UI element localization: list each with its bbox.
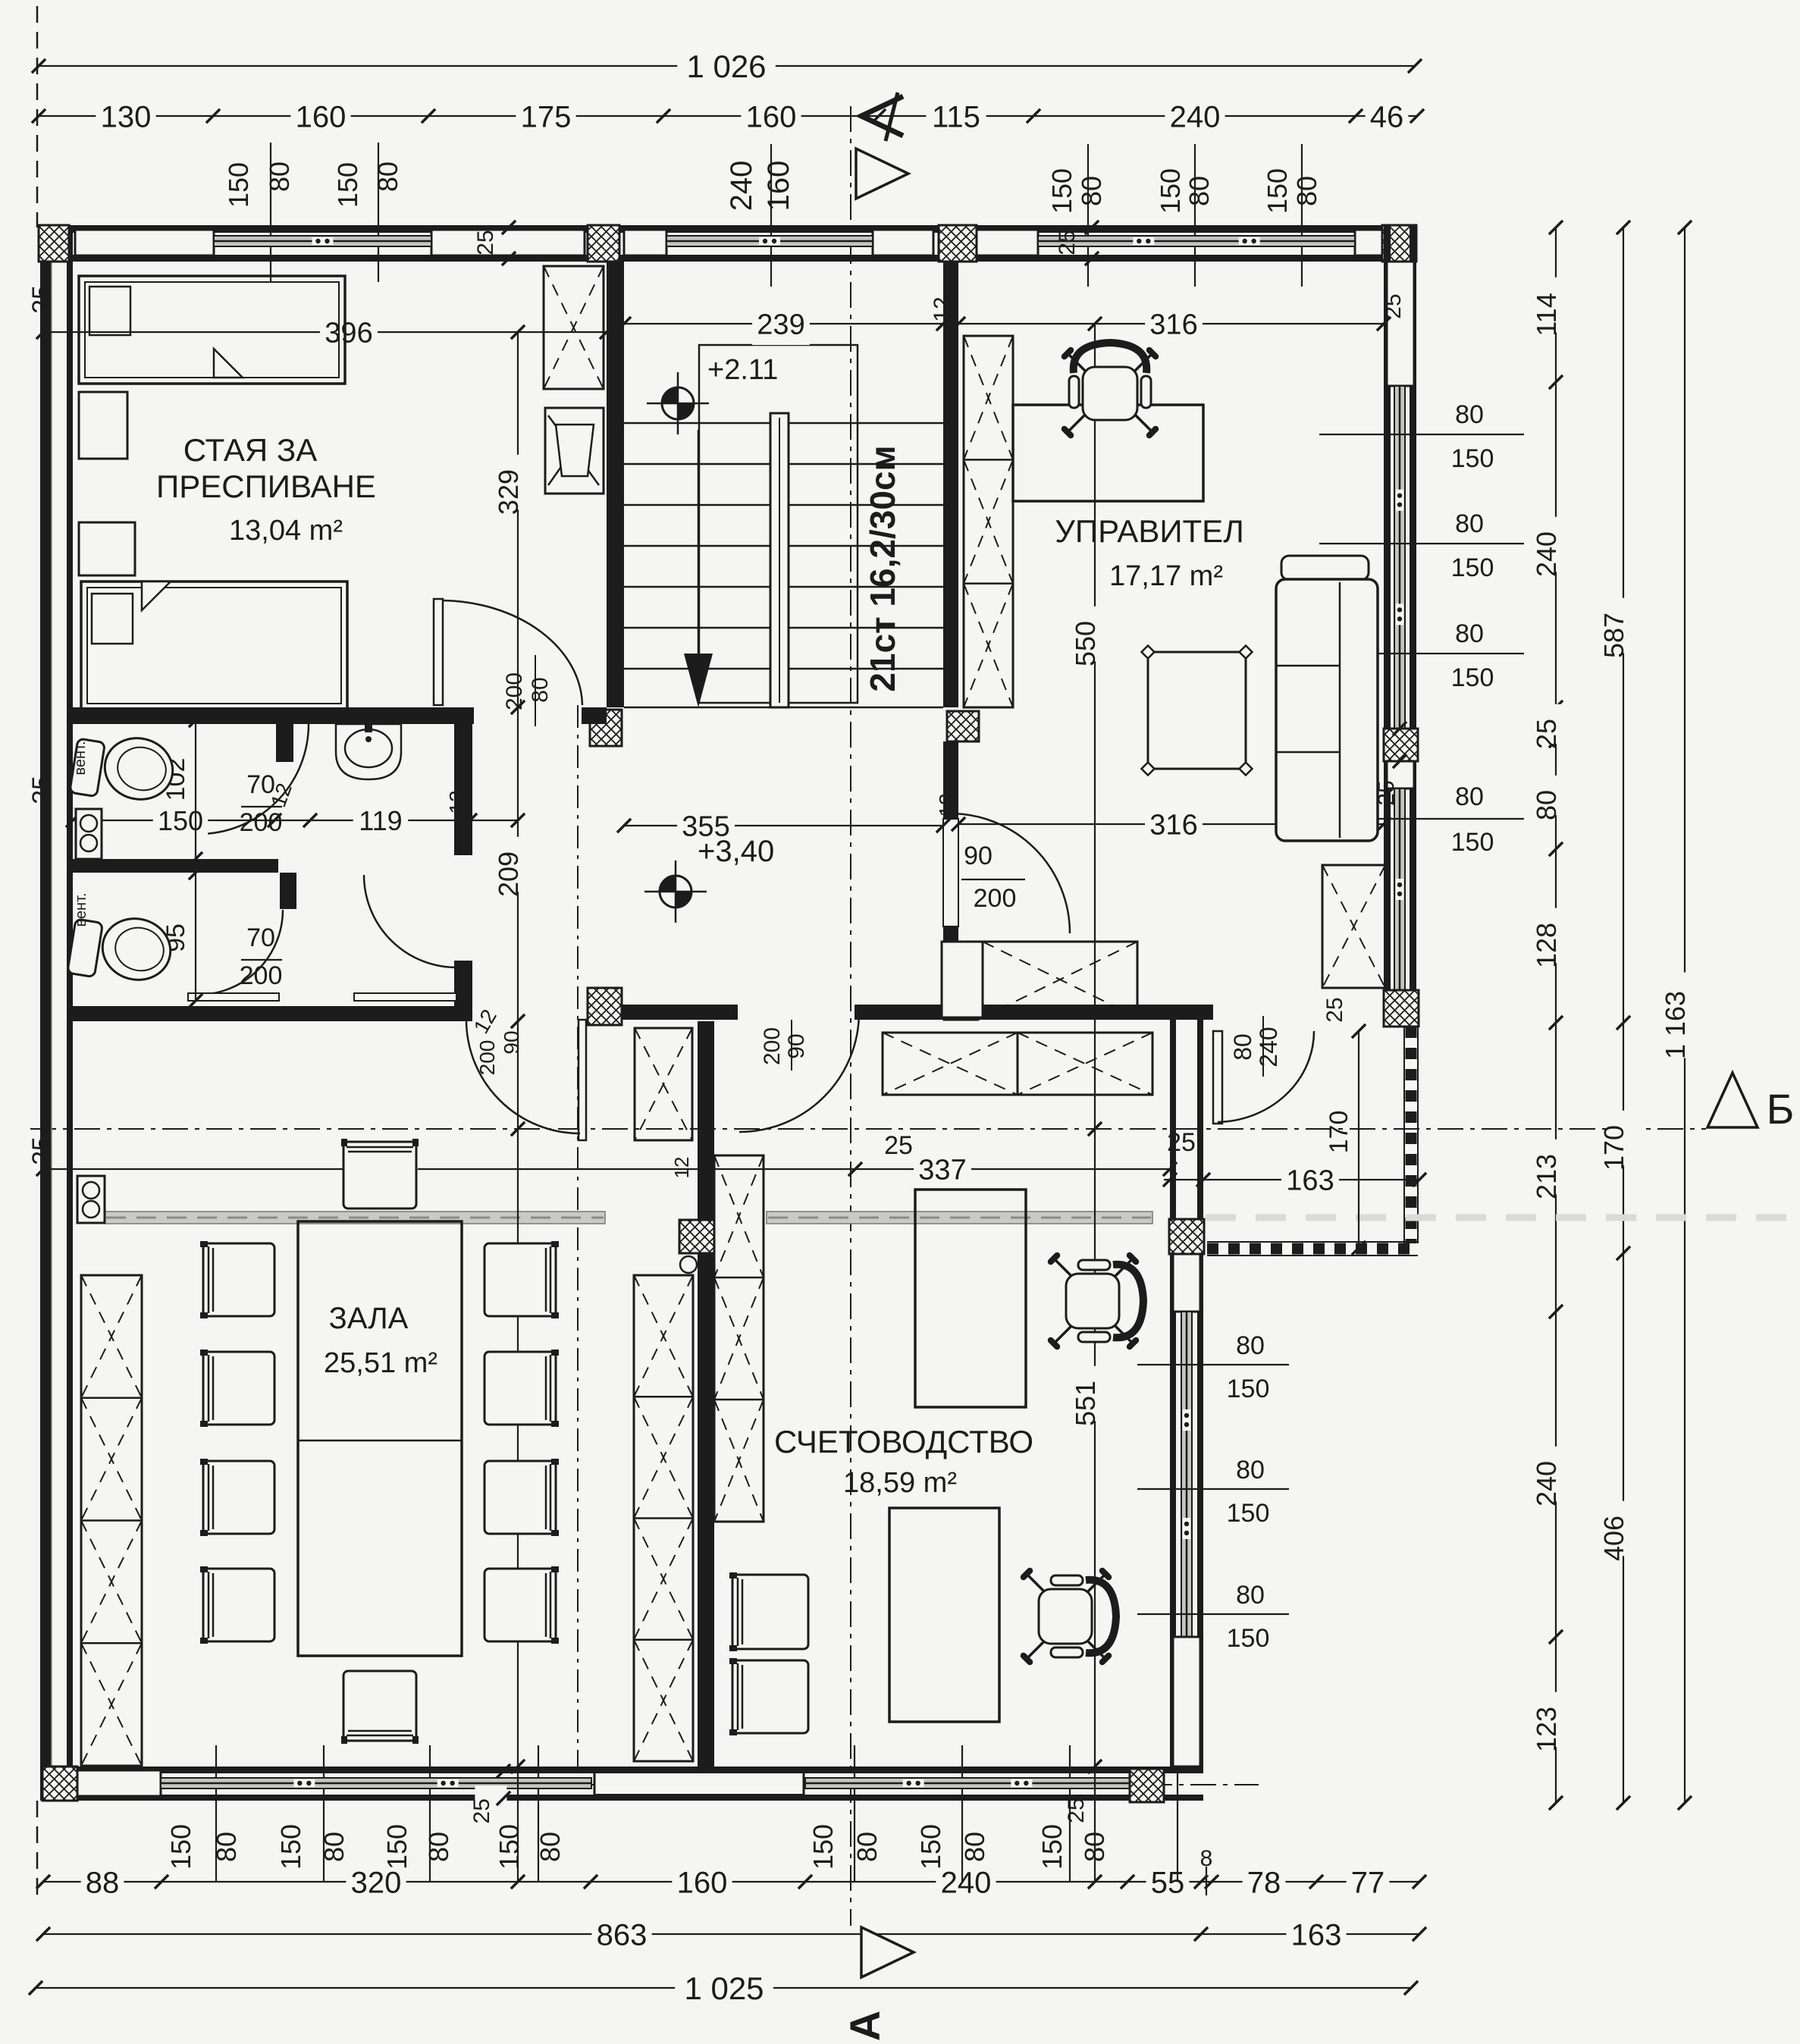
node accounting desk 1	[915, 1190, 1026, 1407]
svg-text:150: 150	[165, 1824, 196, 1870]
svg-text:25: 25	[27, 1136, 56, 1165]
svg-text:80: 80	[1455, 619, 1484, 648]
wall manager west segment lower	[943, 926, 958, 998]
svg-text:80: 80	[535, 1832, 566, 1862]
svg-text:240: 240	[1531, 1461, 1562, 1506]
svg-text:150: 150	[1227, 1499, 1270, 1528]
svg-text:70: 70	[246, 770, 275, 799]
node axis A vertical dash-dot line	[850, 106, 851, 1926]
svg-text:170: 170	[1598, 1125, 1629, 1171]
node accounting chair 1	[1046, 1251, 1143, 1351]
node accounting visitor chairs	[732, 1575, 808, 1649]
svg-text:90: 90	[964, 842, 993, 870]
svg-text:80: 80	[959, 1832, 990, 1862]
node dim 239 stairs	[624, 323, 943, 324]
svg-text:550: 550	[1070, 621, 1101, 666]
svg-text:Б: Б	[1767, 1085, 1795, 1133]
svg-text:80: 80	[528, 677, 553, 702]
window right manager glazing lower	[1394, 788, 1405, 990]
wall pier hatch top corner right	[1382, 225, 1416, 262]
svg-text:150: 150	[223, 162, 254, 208]
door bath arc 80/200	[364, 875, 456, 967]
node dim vertical 329/209/551 line	[517, 332, 519, 1882]
svg-text:316: 316	[1149, 810, 1197, 842]
wire left boundary dashed line bottom	[36, 1801, 39, 1895]
node manager desk	[1013, 405, 1203, 501]
wall pier hatch stairs east foot	[947, 711, 979, 741]
svg-text:240: 240	[1531, 531, 1562, 577]
node section symbol B triangle	[1707, 1073, 1758, 1127]
svg-text:1 163: 1 163	[1660, 991, 1691, 1059]
svg-text:25: 25	[473, 230, 498, 255]
wall bottom band	[40, 1767, 1203, 1773]
svg-text:587: 587	[1598, 613, 1629, 658]
svg-text:80: 80	[1076, 176, 1107, 206]
window bottom hall glazing	[161, 1778, 591, 1788]
svg-text:200: 200	[240, 808, 283, 837]
node stove panel zala	[77, 1176, 105, 1223]
wall accounting north partition dotted	[767, 1212, 1152, 1224]
node manager rug	[1148, 652, 1246, 769]
svg-text:25,51 m²: 25,51 m²	[324, 1347, 437, 1379]
wall wc divider	[73, 859, 278, 873]
wall wc east stub upper	[276, 720, 293, 762]
wall pier hatch top at stairs	[588, 225, 619, 262]
node zala chairs left	[203, 1243, 274, 1316]
door wc lower arc 70/200	[198, 910, 283, 995]
node dim 355 hall	[624, 825, 943, 826]
svg-text:25: 25	[1167, 1128, 1196, 1157]
svg-text:55: 55	[1151, 1866, 1185, 1899]
node wardrobe beside stairs	[544, 266, 604, 389]
svg-text:25: 25	[1381, 293, 1406, 318]
node dim row 88/320/160/240/55/8/78/77	[43, 1881, 1419, 1883]
svg-text:80: 80	[211, 1832, 242, 1862]
wall terrace parapet horizontal	[1207, 1241, 1418, 1243]
door zala leaf and arc 90/200	[579, 1020, 586, 1140]
wall pier hatch zala divider	[679, 1220, 714, 1253]
svg-text:337: 337	[918, 1155, 966, 1187]
svg-text:209: 209	[493, 851, 524, 897]
svg-text:175: 175	[521, 100, 572, 133]
node nightstand 1	[79, 392, 127, 459]
wall zala north partition dotted	[105, 1212, 605, 1224]
window top bedroom frame boxes	[75, 230, 214, 255]
svg-text:150: 150	[1155, 168, 1186, 214]
wall corridor south left segment	[588, 1005, 738, 1020]
node window dim labels group manager room	[1087, 144, 1089, 287]
svg-text:90: 90	[500, 1030, 523, 1054]
svg-text:80: 80	[1229, 1033, 1256, 1061]
node dim 316 manager lower	[958, 823, 1384, 825]
svg-text:80: 80	[1236, 1331, 1265, 1360]
svg-text:150: 150	[915, 1824, 946, 1870]
node zala chairs right	[484, 1243, 556, 1316]
svg-text:150: 150	[1451, 663, 1494, 692]
svg-text:12: 12	[930, 296, 955, 321]
node dim 396 bedroom	[43, 331, 607, 333]
node dim column right middle 587/170/406	[1623, 227, 1624, 1803]
wall stairs east	[943, 262, 958, 707]
svg-text:150: 150	[1046, 168, 1077, 214]
svg-text:160: 160	[677, 1866, 728, 1899]
svg-text:128: 128	[1531, 923, 1562, 968]
wall pier hatch right mid	[1384, 729, 1418, 761]
svg-text:46: 46	[1370, 100, 1404, 133]
node dim 102 wc upper	[195, 720, 196, 859]
window top manager frame boxes	[976, 230, 1038, 255]
node cabinet corridor upper	[942, 942, 983, 1017]
node window dim labels bottom hall	[215, 1745, 217, 1882]
svg-text:150: 150	[332, 162, 363, 208]
svg-text:А: А	[841, 2011, 889, 2041]
door manager arc 90/200	[949, 812, 951, 819]
svg-text:150: 150	[381, 1824, 412, 1870]
wall pier hatch right at corridor	[1384, 990, 1419, 1027]
svg-text:12: 12	[445, 790, 469, 814]
svg-text:240: 240	[725, 161, 758, 212]
svg-text:150: 150	[807, 1824, 839, 1870]
svg-text:200: 200	[974, 884, 1017, 913]
svg-text:163: 163	[1291, 1918, 1342, 1952]
node dim row 1026	[39, 65, 1415, 67]
svg-text:78: 78	[1247, 1866, 1281, 1899]
svg-text:316: 316	[1149, 309, 1197, 341]
dim lines 80/150 right manager wall	[1319, 434, 1524, 435]
svg-text:+2.11: +2.11	[707, 354, 778, 386]
node survey marker upper	[662, 387, 694, 419]
svg-text:160: 160	[746, 100, 797, 133]
svg-text:80: 80	[264, 161, 295, 192]
svg-text:90: 90	[784, 1033, 809, 1058]
svg-text:150: 150	[1451, 553, 1494, 582]
wall sink east stub lower	[454, 961, 472, 1021]
node axis B horizontal dash-dot line	[30, 1128, 1706, 1130]
svg-text:130: 130	[101, 100, 152, 133]
svg-text:200: 200	[760, 1027, 785, 1065]
svg-text:12: 12	[935, 793, 958, 817]
node dim column right outer 1163	[1684, 227, 1686, 1803]
svg-text:329: 329	[493, 469, 524, 515]
door sill bath south left	[188, 993, 279, 1001]
node dim 163 terrace	[1164, 1179, 1419, 1180]
svg-text:80: 80	[1455, 509, 1484, 538]
wall wc east stub lower	[280, 873, 296, 909]
svg-text:25: 25	[27, 776, 56, 804]
svg-text:406: 406	[1598, 1516, 1629, 1561]
svg-text:150: 150	[1262, 168, 1293, 214]
window top manager glazing	[1038, 236, 1355, 246]
node manager office chair	[1060, 343, 1160, 440]
node cabinet corridor lower	[883, 1033, 1018, 1095]
node axis mid vertical dash-dot line	[577, 705, 579, 1767]
node vent circle	[680, 1256, 697, 1273]
door sill bath south right	[354, 993, 456, 1001]
node manager window cabinet	[1322, 865, 1385, 988]
node window dim labels group bedroom	[270, 143, 271, 282]
door wc upper arc 70/200	[199, 724, 309, 834]
svg-text:вент.: вент.	[72, 741, 89, 775]
node wardrobe manager west	[964, 336, 1013, 707]
svg-text:80: 80	[1531, 790, 1562, 820]
svg-text:119: 119	[359, 805, 402, 836]
node washbasin	[336, 724, 401, 779]
svg-text:80: 80	[1455, 782, 1484, 811]
svg-text:551: 551	[1070, 1381, 1101, 1426]
wall sink east	[454, 720, 472, 855]
window bottom accounting glazing	[805, 1778, 1130, 1788]
dim lines 80/150 right accounting wall	[1137, 1364, 1289, 1365]
door bedroom arc 80/200	[434, 599, 443, 705]
node dim vertical 550/551 line	[1094, 324, 1096, 1882]
svg-text:80: 80	[1236, 1581, 1265, 1610]
svg-text:240: 240	[941, 1866, 992, 1899]
wall stairs west	[607, 262, 624, 707]
svg-text:80: 80	[318, 1832, 350, 1862]
wall bottom solid mid piece	[594, 1768, 804, 1798]
svg-text:25: 25	[1055, 230, 1080, 255]
svg-text:239: 239	[757, 309, 804, 341]
node nightstand 2	[79, 522, 135, 575]
node zala chair top	[343, 1142, 416, 1209]
node stair stringer	[770, 413, 789, 707]
node boiler panel wc	[76, 809, 102, 859]
svg-text:200: 200	[502, 672, 527, 710]
svg-text:СЧЕТОВОДСТВО: СЧЕТОВОДСТВО	[774, 1424, 1033, 1459]
svg-text:160: 160	[296, 100, 347, 133]
node section symbol A bottom triangle	[861, 1927, 914, 1977]
wall pier hatch corridor east	[944, 987, 978, 1020]
svg-text:25: 25	[469, 1798, 494, 1823]
node stair landing/void outline	[699, 345, 858, 703]
wall right lower band	[1170, 1020, 1176, 1767]
svg-text:115: 115	[932, 100, 980, 133]
svg-text:1 025: 1 025	[684, 1970, 764, 2006]
svg-text:150: 150	[1036, 1824, 1068, 1870]
node window dim labels bottom accounting	[854, 1745, 855, 1882]
svg-text:150: 150	[275, 1824, 306, 1870]
svg-text:80: 80	[372, 161, 403, 192]
svg-text:80: 80	[1455, 400, 1484, 429]
wire left boundary dashed line top	[36, 6, 39, 227]
node dim row 1025	[36, 1987, 1411, 1989]
wall right upper band	[1384, 225, 1391, 1027]
wall terrace parapet vertical	[1403, 1027, 1405, 1243]
svg-text:СТАЯ ЗА: СТАЯ ЗА	[183, 432, 318, 468]
node zala chair bottom	[343, 1671, 416, 1741]
svg-text:213: 213	[1531, 1154, 1562, 1199]
svg-text:240: 240	[1170, 100, 1221, 133]
node bed 1	[79, 276, 345, 384]
svg-text:150: 150	[1451, 828, 1494, 857]
svg-text:25: 25	[884, 1131, 913, 1160]
svg-text:21ст 16,2/30см: 21ст 16,2/30см	[863, 445, 902, 691]
svg-text:123: 123	[1531, 1707, 1562, 1752]
wall pier hatch top corner left	[39, 225, 69, 262]
wall pier hatch bottom right	[1130, 1769, 1164, 1802]
wall pier hatch top mid	[939, 225, 977, 262]
svg-text:13,04 m²: 13,04 m²	[229, 515, 343, 547]
node dim 95 wc lower	[195, 873, 196, 1001]
svg-text:80: 80	[423, 1832, 454, 1862]
svg-text:80: 80	[851, 1832, 883, 1862]
svg-text:25: 25	[1064, 1798, 1089, 1823]
svg-text:25: 25	[1531, 719, 1562, 749]
window right manager glazing upper	[1394, 386, 1405, 729]
wall pier hatch right lower top	[1169, 1219, 1204, 1254]
svg-text:200: 200	[240, 961, 283, 990]
node dim 316 manager	[958, 323, 1384, 324]
node shelf with mirror beside stairs	[545, 408, 604, 494]
wall corridor south right segment	[855, 1005, 1213, 1020]
svg-text:+3,40: +3,40	[698, 835, 774, 868]
svg-text:77: 77	[1351, 1866, 1385, 1899]
window bottom hall frame boxes	[77, 1770, 161, 1796]
svg-text:150: 150	[1451, 444, 1494, 473]
svg-text:114: 114	[1531, 293, 1562, 336]
door terrace arc 80/240	[1213, 1031, 1222, 1124]
node zala wall cabinet	[81, 1275, 142, 1766]
svg-text:240: 240	[1255, 1027, 1282, 1067]
node scan artifact band right	[1206, 1215, 1800, 1221]
node cabinet zala divider	[634, 1275, 693, 1761]
node window dim labels group stairs 160/240	[770, 144, 772, 287]
node section symbol A top triangle	[856, 149, 908, 199]
svg-text:863: 863	[597, 1918, 648, 1952]
wall pier hatch hall west	[588, 988, 622, 1025]
wall pier hatch stairs west foot	[590, 710, 622, 746]
wall bedroom south	[73, 707, 474, 724]
node bed 2	[81, 582, 347, 710]
node dim 170 terrace rotated	[1358, 1031, 1359, 1248]
svg-text:160: 160	[762, 161, 795, 212]
svg-text:150: 150	[1227, 1375, 1270, 1403]
node cabinet hall divider	[635, 1028, 692, 1140]
svg-text:17,17 m²: 17,17 m²	[1109, 560, 1223, 592]
node toilet upper	[70, 738, 105, 797]
svg-text:396: 396	[325, 318, 372, 350]
svg-text:163: 163	[1286, 1165, 1334, 1197]
svg-text:25: 25	[1322, 997, 1347, 1022]
svg-text:88: 88	[86, 1866, 120, 1899]
wall zala divider	[698, 1021, 714, 1767]
svg-text:200: 200	[475, 1040, 499, 1076]
svg-text:вент.: вент.	[73, 892, 89, 926]
node axis bottom-wall dash-dot line	[531, 1784, 1259, 1785]
svg-text:150: 150	[494, 1824, 525, 1870]
node cabinet accounting divider	[714, 1155, 764, 1522]
svg-text:150: 150	[1227, 1624, 1270, 1653]
window right accounting glazing	[1181, 1312, 1192, 1637]
node stair treads	[624, 422, 943, 425]
node dim 119/150 row	[73, 820, 518, 821]
svg-text:80: 80	[1291, 176, 1322, 206]
svg-text:1 026: 1 026	[686, 49, 766, 84]
svg-text:25: 25	[27, 285, 56, 314]
window top bedroom glazing	[214, 236, 431, 246]
node zala conference table	[298, 1221, 462, 1656]
door hall arc 90/200	[739, 1012, 859, 1132]
svg-text:80: 80	[1184, 176, 1215, 206]
node dim column right inner 114/240/25/80/128/213/240/123	[1555, 227, 1557, 1803]
node dim row 130/160/175/160/115/240/46	[39, 115, 1417, 117]
wall left outer	[40, 225, 52, 1801]
wall bath south	[73, 1006, 460, 1021]
node accounting chair 2	[1019, 1566, 1116, 1666]
window right manager frame box top	[1387, 262, 1414, 386]
node accounting desk 2	[889, 1508, 999, 1722]
svg-text:ЗАЛА: ЗАЛА	[329, 1302, 409, 1335]
svg-text:70: 70	[246, 923, 275, 952]
node dim row 863/163	[43, 1933, 1419, 1935]
svg-text:ПРЕСПИВАНЕ: ПРЕСПИВАНЕ	[156, 469, 376, 504]
window top stairs frame boxes	[624, 230, 666, 255]
svg-text:320: 320	[351, 1866, 402, 1899]
node survey marker lower	[660, 876, 691, 908]
svg-text:12: 12	[670, 1157, 693, 1179]
node manager sofa	[1281, 556, 1369, 580]
node dim 463/337 row	[43, 1168, 1170, 1170]
svg-text:УПРАВИТЕЛ: УПРАВИТЕЛ	[1055, 513, 1244, 549]
window top stairs glazing	[666, 236, 873, 246]
wall bedroom south jamb	[582, 707, 607, 724]
node stair direction arrow	[698, 430, 700, 654]
svg-text:170: 170	[1325, 1111, 1353, 1154]
wall top band	[40, 225, 1416, 233]
svg-text:80: 80	[1236, 1456, 1265, 1484]
svg-text:18,59 m²: 18,59 m²	[843, 1467, 957, 1499]
node section mark A top arrow	[861, 96, 903, 136]
wall manager west segment upper	[943, 741, 958, 819]
wall pier hatch bottom left corner	[42, 1767, 77, 1801]
node toilet lower	[67, 919, 103, 977]
dim ticks 25 right wall	[1393, 722, 1406, 735]
